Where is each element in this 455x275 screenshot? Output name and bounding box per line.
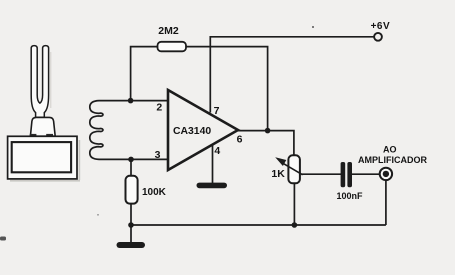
coil L1: [90, 101, 168, 160]
svg-text:4: 4: [214, 145, 220, 157]
terminal +6V: [374, 33, 382, 41]
op-amp U1 CA3140: [168, 90, 238, 170]
wire: pot bottom: [293, 183, 295, 225]
svg-text:6: 6: [237, 134, 243, 146]
node: pin3 junction: [128, 157, 134, 163]
capacitor 100nF: [341, 162, 352, 187]
resistor 100K: [126, 176, 138, 204]
tuning fork: [31, 46, 48, 118]
wire: bottom rail: [131, 224, 386, 226]
resistor 2M2: [158, 42, 187, 52]
node: pin2 junction: [128, 98, 134, 104]
svg-text:7: 7: [214, 105, 220, 117]
tuning fork pedestal: [30, 117, 55, 136]
wire: output to pot: [238, 131, 294, 156]
node: rail left junction: [128, 222, 134, 228]
sensor box: [8, 136, 81, 181]
wire: jack down: [385, 180, 387, 225]
ground (rail): [117, 242, 146, 248]
wire: 100K bottom stem: [130, 204, 132, 225]
wire: feedback left vertical: [131, 47, 158, 101]
node: output junction: [265, 128, 271, 134]
wire: pin4 stub: [212, 145, 214, 184]
wire: feedback right + vertical to output: [186, 47, 268, 131]
svg-text:3: 3: [155, 149, 161, 161]
output jack: [380, 168, 392, 180]
svg-text:AO: AO: [383, 145, 397, 155]
wire: ground stem: [130, 225, 132, 243]
speck marks: [0, 26, 314, 241]
svg-text:2: 2: [156, 102, 162, 114]
svg-text:100K: 100K: [142, 187, 167, 198]
wire: cap to jack: [352, 173, 380, 175]
wire: 100K top stem: [130, 159, 132, 175]
svg-text:1K: 1K: [271, 168, 285, 180]
potentiometer 1K: [275, 155, 302, 183]
wire: wiper to cap: [302, 173, 342, 175]
svg-text:+6V: +6V: [371, 21, 391, 32]
svg-text:AMPLIFICADOR: AMPLIFICADOR: [358, 155, 427, 165]
svg-text:2M2: 2M2: [158, 25, 179, 37]
svg-text:100nF: 100nF: [337, 191, 364, 201]
ground (pin4): [197, 183, 228, 189]
svg-text:CA3140: CA3140: [173, 126, 211, 137]
scan shadow: [50, 52, 51, 108]
node: rail pot junction: [292, 222, 298, 228]
wire: +6V rail: [210, 37, 374, 113]
